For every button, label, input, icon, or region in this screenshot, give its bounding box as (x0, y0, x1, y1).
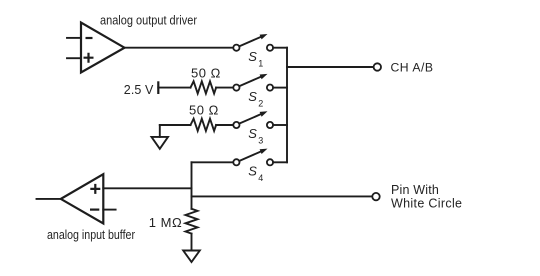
wire: S4 to bus (273, 161, 287, 163)
wire: U2 output stub (37, 198, 61, 200)
svg-text:4: 4 (258, 173, 263, 183)
ground G2 (183, 251, 200, 263)
svg-text:50 Ω: 50 Ω (191, 65, 221, 80)
wire: node A to pin terminal (192, 195, 373, 197)
wire: U1 inverting input stub (67, 37, 81, 39)
switch S1 (233, 34, 273, 68)
switch S2 (233, 74, 273, 108)
svg-text:Pin With: Pin With (391, 183, 439, 197)
wire: node A to S4 (192, 161, 234, 163)
op-amp U2 analog input buffer (61, 174, 104, 223)
switch S4 (233, 149, 273, 183)
switch S3 (233, 111, 273, 145)
svg-text:S: S (248, 126, 257, 141)
wire: R3 to ground (191, 234, 193, 251)
wire: S3 to bus (273, 124, 287, 126)
svg-text:2: 2 (258, 98, 263, 108)
wire: U1 non-inverting input stub (67, 57, 81, 59)
svg-text:S: S (248, 164, 257, 179)
wire: G1 to R2 (160, 124, 191, 126)
svg-text:50 Ω: 50 Ω (189, 103, 219, 118)
svg-text:analog output driver: analog output driver (100, 13, 197, 27)
svg-text:S: S (248, 89, 257, 104)
svg-text:S: S (248, 49, 257, 64)
svg-text:3: 3 (258, 136, 263, 146)
resistor R1 50 ohm (191, 81, 217, 93)
wire: S1 to bus (273, 47, 287, 49)
wire: R2 to S3 (216, 124, 233, 126)
resistor R2 50 ohm (191, 119, 217, 131)
svg-text:White Circle: White Circle (391, 196, 462, 210)
op-amp U1 analog output driver (81, 23, 125, 73)
terminal: CH A/B circle (374, 63, 381, 70)
terminal: pin with white circle (372, 193, 379, 200)
wire: bus vertical (286, 48, 288, 163)
svg-text:analog input buffer: analog input buffer (47, 228, 135, 242)
terminal bar: 2.5 V (157, 81, 159, 94)
wire: R1 to S2 (216, 87, 233, 89)
wire: U2 non-inverting input to node A (103, 187, 191, 189)
svg-text:2.5 V: 2.5 V (124, 83, 154, 97)
ground G1 (152, 125, 169, 149)
wire: U1 output to S1 (125, 47, 234, 49)
resistor R3 1 Mohm (186, 209, 198, 234)
wire: bus to CH A/B terminal (287, 66, 374, 68)
wire: U2 inverting input stub (103, 209, 115, 211)
svg-text:1: 1 (258, 58, 263, 68)
svg-text:CH A/B: CH A/B (391, 61, 434, 75)
wire: 2.5 V to R1 (158, 87, 190, 89)
svg-text:1 MΩ: 1 MΩ (149, 215, 182, 230)
wire: S2 to bus (273, 87, 287, 89)
wire: node A vertical (191, 162, 193, 209)
